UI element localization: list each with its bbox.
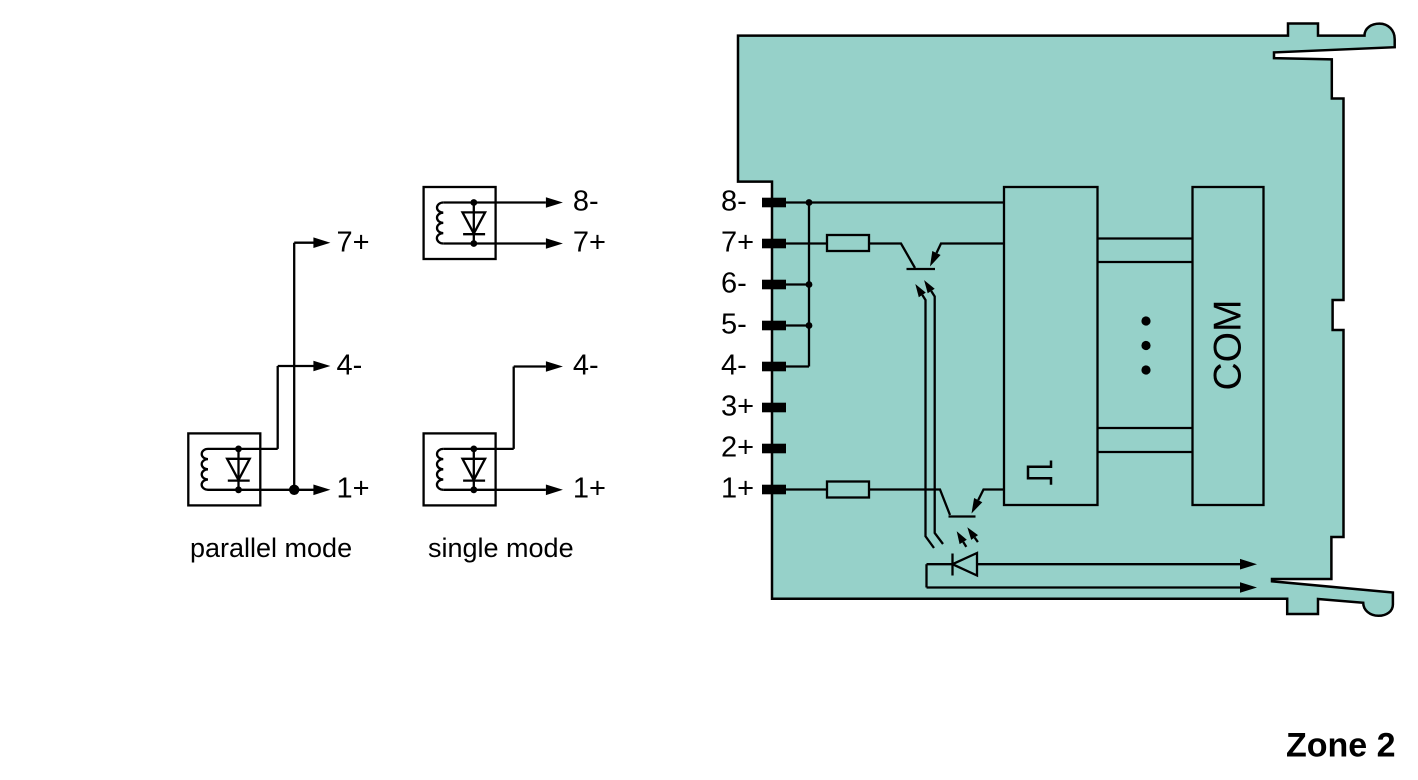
svg-text:1+: 1+ [337, 473, 370, 505]
svg-text:parallel mode: parallel mode [190, 533, 352, 563]
svg-text:COM: COM [1207, 300, 1250, 391]
svg-text:3+: 3+ [721, 391, 754, 423]
svg-text:5-: 5- [721, 309, 747, 341]
svg-text:7+: 7+ [721, 227, 754, 259]
svg-text:1+: 1+ [573, 473, 606, 505]
svg-text:4-: 4- [573, 350, 599, 382]
svg-text:4-: 4- [721, 350, 747, 382]
svg-text:2+: 2+ [721, 432, 754, 464]
svg-text:single mode: single mode [428, 533, 574, 563]
svg-text:4-: 4- [337, 350, 363, 382]
svg-text:7+: 7+ [337, 227, 370, 259]
svg-text:8-: 8- [721, 186, 747, 218]
svg-text:Zone 2: Zone 2 [1286, 727, 1396, 765]
svg-text:8-: 8- [573, 186, 599, 218]
svg-text:1+: 1+ [721, 473, 754, 505]
svg-text:6-: 6- [721, 268, 747, 300]
svg-text:7+: 7+ [573, 227, 606, 259]
